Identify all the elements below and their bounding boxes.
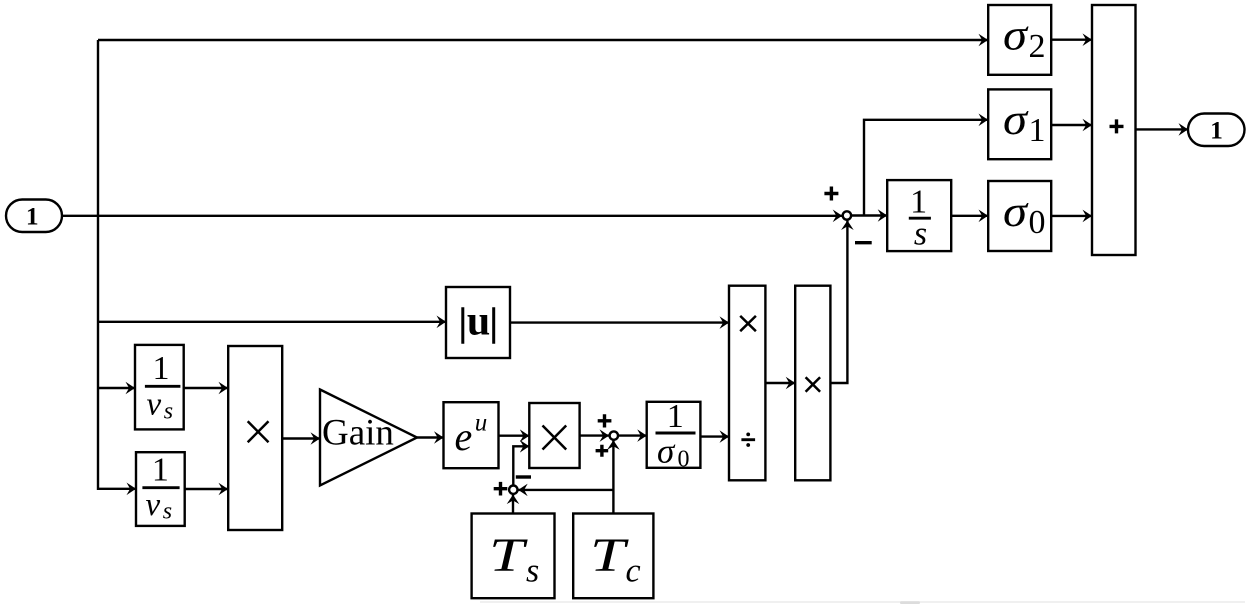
svg-text:Gain: Gain xyxy=(322,413,394,454)
sum junction J3 xyxy=(494,477,531,496)
svg-text:0: 0 xyxy=(678,446,690,472)
wire: sigma0 to sum block xyxy=(1052,215,1092,217)
block 1/sigma0 xyxy=(647,398,701,472)
svg-text:s: s xyxy=(526,553,539,590)
sum block S1 xyxy=(1092,5,1136,255)
svg-text:u: u xyxy=(467,299,490,345)
block 1/vs top xyxy=(135,345,184,430)
wire: junction J3 up to product P2 second input xyxy=(513,446,529,485)
wire: top branch to sigma2 xyxy=(98,39,988,41)
wire: junction J2 to 1/sigma0 xyxy=(618,434,646,436)
abs block |u| xyxy=(446,287,510,358)
wire: sum block to output port xyxy=(1136,128,1189,130)
wire: bottom 1/vs to product P1 xyxy=(185,488,228,490)
svg-text:1: 1 xyxy=(26,202,39,231)
wire: product P2 to junction J2 xyxy=(580,434,609,436)
wire: top 1/vs to product P1 xyxy=(184,387,228,389)
svg-text:v: v xyxy=(147,387,162,423)
svg-text:T: T xyxy=(590,529,629,582)
wire: 1/sigma0 to divide block bottom input xyxy=(700,435,729,437)
output port 1 xyxy=(1188,114,1245,147)
svg-text:e: e xyxy=(455,414,473,459)
wire: Ts up to junction J3 xyxy=(512,495,514,514)
wire: abs block to divide block top input xyxy=(510,321,729,323)
wire: input port to sum junction J1 xyxy=(62,215,842,217)
faint separator line bottom xyxy=(480,601,1245,604)
svg-text:u: u xyxy=(475,409,488,436)
block 1/vs bottom xyxy=(136,452,185,526)
svg-text:1: 1 xyxy=(1029,112,1046,149)
svg-text:2: 2 xyxy=(1029,28,1046,65)
wire: Tc up to junction J2 xyxy=(612,440,614,513)
svg-text:σ: σ xyxy=(1003,11,1030,60)
wire: product P3 feedback up to junction J1 xyxy=(830,221,847,384)
sum junction J1 xyxy=(824,187,871,243)
gain block (triangle) xyxy=(320,390,417,486)
wire: product P1 to Gain xyxy=(282,437,320,439)
input port 1 xyxy=(6,200,62,233)
svg-text:1: 1 xyxy=(1210,115,1223,144)
product block P3 xyxy=(795,286,830,481)
svg-text:σ: σ xyxy=(1003,187,1030,236)
divide block D1 xyxy=(729,286,765,481)
svg-text:σ: σ xyxy=(657,432,676,471)
wire: exp block to product P2 xyxy=(499,435,530,437)
svg-text:1: 1 xyxy=(153,350,170,387)
wire: branch from J1 output up to sigma1 xyxy=(864,120,988,216)
wire: branch to abs block xyxy=(98,321,446,323)
wire: divide block to product P3 xyxy=(765,382,795,384)
svg-text:1: 1 xyxy=(152,452,169,489)
svg-text:c: c xyxy=(626,553,641,590)
svg-text:s: s xyxy=(164,398,173,424)
block Tc xyxy=(573,514,653,599)
wire: trunk from input down left side to bottom 1/vs xyxy=(98,40,136,489)
svg-text:σ: σ xyxy=(1003,95,1030,144)
wire: Tc branch left to junction J3 xyxy=(518,489,613,491)
block sigma0 xyxy=(988,181,1051,251)
wire: integrator to sigma0 xyxy=(951,215,988,217)
svg-text:T: T xyxy=(489,529,528,582)
sum junction J2 xyxy=(596,414,618,457)
wire: junction J1 to integrator 1/s xyxy=(852,214,888,216)
block sigma2 xyxy=(988,5,1051,75)
integrator block 1/s xyxy=(887,180,951,252)
wire: sigma1 to sum block xyxy=(1052,124,1092,126)
wire: sigma2 to sum block xyxy=(1052,39,1092,41)
exp block e^u xyxy=(444,402,499,468)
block Ts xyxy=(472,514,555,599)
svg-text:s: s xyxy=(163,499,172,525)
product block P1 xyxy=(228,346,282,530)
block sigma1 xyxy=(988,89,1051,159)
svg-text:0: 0 xyxy=(1029,204,1046,241)
wire: branch to top 1/vs xyxy=(98,387,135,389)
wire: Gain to exp block xyxy=(417,436,444,438)
svg-text:s: s xyxy=(914,216,927,253)
product block P2 xyxy=(529,403,579,468)
svg-text:1: 1 xyxy=(667,398,684,435)
svg-text:v: v xyxy=(146,487,161,523)
